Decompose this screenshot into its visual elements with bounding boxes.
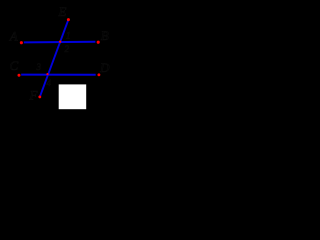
svg-text:E: E <box>58 4 67 19</box>
node E (transversal top endpoint) <box>67 18 70 21</box>
svg-text:D: D <box>99 60 110 75</box>
background <box>0 0 120 114</box>
node D (lower-right endpoint) <box>97 73 100 76</box>
node A (upper-left endpoint) <box>20 41 23 44</box>
svg-text:4: 4 <box>47 78 52 88</box>
wire: upper parallel line AB <box>24 41 96 44</box>
node B (upper-right endpoint) <box>97 41 100 44</box>
wire: lower parallel line CD <box>21 74 96 76</box>
svg-text:1: 1 <box>66 31 71 41</box>
node F (transversal bottom endpoint) <box>38 96 41 99</box>
svg-text:3: 3 <box>36 62 42 72</box>
svg-text:B: B <box>101 28 109 43</box>
wire: transversal line EF <box>40 20 69 97</box>
svg-text:C: C <box>10 58 19 73</box>
node G (upper intersection) <box>59 41 61 43</box>
svg-text:2: 2 <box>65 44 70 54</box>
node H (lower intersection) <box>46 73 48 75</box>
svg-text:F: F <box>29 88 39 103</box>
white answer box <box>59 84 86 109</box>
node C (lower-left endpoint) <box>18 74 21 77</box>
svg-text:A: A <box>9 29 18 44</box>
